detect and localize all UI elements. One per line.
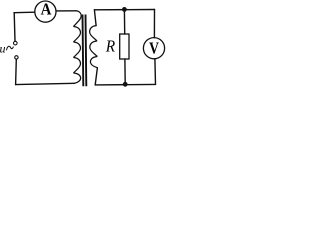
wire resistor branch upper (junction to R top) [123,10,125,35]
svg-text:A: A [41,0,52,18]
wire voltmeter branch lower (V bottom to corner) [154,59,157,85]
transformer primary winding [74,11,81,84]
wire resistor branch lower (R bottom to junction) [124,59,126,84]
wire top-left horizontal (source to ammeter) [14,11,34,14]
svg-text:R: R [105,37,116,56]
source label tilde ~ [7,46,14,50]
wire voltmeter branch upper (corner to V top) [153,10,155,38]
wire secondary bottom vertical (coil down to corner) [95,68,97,85]
svg-text:V: V [149,39,159,58]
junction dot top node [122,7,127,12]
wire secondary top horizontal [94,9,154,11]
transformer core line 1 [82,15,85,87]
voltmeter V meter circle [143,38,164,59]
wire secondary top vertical (corner down to coil) [94,10,96,26]
ammeter A meter circle [35,1,56,22]
resistor R box [120,34,129,59]
source terminal lower (small circle) [15,56,18,59]
wire left vertical (corner to upper terminal) [13,13,16,42]
svg-text:u: u [0,42,6,56]
source terminal upper (small circle) [14,41,18,45]
transformer secondary winding [90,26,98,68]
transformer core line 2 [85,15,88,87]
wire secondary bottom horizontal [95,83,155,86]
junction dot bottom node [123,82,128,87]
wire lower terminal to bottom-left corner [15,59,18,84]
wire bottom-left horizontal (to primary coil) [16,83,75,84]
wire ammeter to primary coil [56,10,76,12]
